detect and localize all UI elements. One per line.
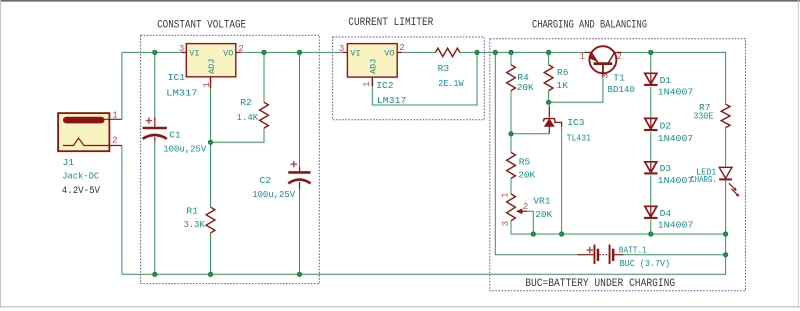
junction node T1 base xyxy=(546,100,551,105)
wire: C2 branch lower xyxy=(299,189,301,275)
svg-text:R3: R3 xyxy=(438,63,450,74)
junction node IC1 ADJ xyxy=(208,140,213,145)
svg-text:3: 3 xyxy=(501,221,511,226)
pin number IC2.2 (VO) xyxy=(399,43,404,53)
LED LED1 CHARG. xyxy=(690,166,739,196)
shunt regulator IC3 TL431 xyxy=(543,105,591,143)
svg-text:D3: D3 xyxy=(660,163,672,174)
svg-text:1: 1 xyxy=(362,81,372,86)
pin number VR1.1 xyxy=(501,192,511,197)
wire: top rail R3 to T1 xyxy=(460,51,585,53)
note BUC=BATTERY UNDER CHARGING xyxy=(525,278,675,290)
wire: R4 bottom to divider node xyxy=(510,91,512,153)
svg-text:2: 2 xyxy=(238,44,243,54)
pin number T1.1 (emitter) xyxy=(580,52,585,62)
svg-text:BD140: BD140 xyxy=(608,84,636,95)
pin number J1.1 xyxy=(112,111,117,121)
svg-text:1N4007: 1N4007 xyxy=(658,87,694,98)
svg-text:R1: R1 xyxy=(186,206,198,217)
wire: R2 branch from top rail xyxy=(263,52,265,102)
svg-text:2E.1W: 2E.1W xyxy=(438,78,464,89)
svg-text:2: 2 xyxy=(617,52,622,62)
wire: diode chain segments xyxy=(650,52,652,234)
wire: J1 pin2 drop to bottom rail xyxy=(121,146,123,275)
junction node C1 ground xyxy=(152,272,157,277)
svg-text:3: 3 xyxy=(179,44,184,54)
wire: IC1 ADJ down through R1 to bottom rail xyxy=(210,88,212,274)
svg-text:VI: VI xyxy=(189,49,199,59)
wire: battery negative to right drop xyxy=(624,254,726,256)
junction node IC2 ADJ feedback xyxy=(474,50,479,55)
svg-text:BATT.1: BATT.1 xyxy=(619,244,647,255)
svg-text:20K: 20K xyxy=(518,170,535,181)
svg-text:20K: 20K xyxy=(517,82,534,93)
svg-text:100u,25V: 100u,25V xyxy=(252,189,295,200)
pin number IC2.3 (VI) xyxy=(339,44,344,54)
svg-text:C1: C1 xyxy=(169,129,181,140)
wire: base node to T1 base xyxy=(549,76,603,103)
junction node VR1 wiper xyxy=(531,231,536,236)
junction node R4-R5 divider xyxy=(508,131,513,136)
pin number T1.3 (base) xyxy=(601,73,611,78)
resistor R6 1K xyxy=(544,65,569,91)
diode D3 1N4007 xyxy=(644,162,693,186)
svg-text:1N4007: 1N4007 xyxy=(658,220,694,231)
svg-text:TL431: TL431 xyxy=(567,133,591,144)
svg-text:VO: VO xyxy=(384,49,394,59)
junction node D1 top xyxy=(648,50,653,55)
dashed box: CONSTANT VOLTAGE section xyxy=(141,20,320,284)
svg-text:VI: VI xyxy=(350,49,360,59)
junction node TL431 ref xyxy=(559,231,564,236)
svg-text:VR1: VR1 xyxy=(533,195,551,206)
junction node battery positive branch xyxy=(493,50,498,55)
svg-text:1: 1 xyxy=(501,192,511,197)
dashed box: CHARGING AND BALANCING section xyxy=(490,20,746,291)
diode D4 1N4007 xyxy=(644,206,693,230)
svg-text:1: 1 xyxy=(112,111,117,121)
svg-text:LM317: LM317 xyxy=(166,88,197,99)
wire: divider node to TL431 anode xyxy=(511,133,549,135)
wire: top rail IC2 VO to R3 xyxy=(402,51,435,53)
wire: R6 bottom to base node xyxy=(548,91,550,103)
svg-text:R2: R2 xyxy=(240,97,252,108)
wire: top rail T1 collector to right corner, down to R7 xyxy=(622,52,726,104)
pin number VR1.3 xyxy=(501,221,511,226)
regulator IC1 LM317 xyxy=(166,44,241,99)
svg-text:IC1: IC1 xyxy=(168,72,186,83)
wire: bottom ground rail xyxy=(122,273,726,275)
svg-text:1: 1 xyxy=(202,82,212,87)
svg-text:BUC (3.7V): BUC (3.7V) xyxy=(620,258,671,269)
regulator IC2 LM317 xyxy=(342,44,406,106)
wire: C1 branch lower xyxy=(154,141,156,275)
svg-text:R5: R5 xyxy=(519,156,531,167)
svg-text:1N4007: 1N4007 xyxy=(658,133,694,144)
resistor R4 20K xyxy=(507,65,534,93)
svg-text:LM317: LM317 xyxy=(377,95,406,106)
resistor R7 330E xyxy=(693,102,730,128)
junction node LED1 bottom xyxy=(723,231,728,236)
wire: C2 branch upper xyxy=(299,52,301,166)
wire: R5 bottom to VR1 top xyxy=(510,178,512,194)
junction node battery negative xyxy=(723,252,728,257)
pin number IC1.3 (VI) xyxy=(179,44,184,54)
svg-text:CONSTANT VOLTAGE: CONSTANT VOLTAGE xyxy=(157,20,246,32)
resistor R3 2E.1W xyxy=(436,48,464,89)
pin number IC1.2 (VO) xyxy=(238,44,243,54)
svg-text:IC2: IC2 xyxy=(376,80,394,91)
junction node D4 bottom xyxy=(648,231,653,236)
svg-text:100u,25V: 100u,25V xyxy=(163,143,206,154)
svg-text:VO: VO xyxy=(223,49,233,59)
svg-text:ADJ: ADJ xyxy=(207,59,217,74)
wire: VR1 bottom to inside rail xyxy=(511,221,726,234)
pin number T1.2 (collector) xyxy=(617,52,622,62)
diode D2 1N4007 xyxy=(644,118,693,144)
svg-text:C2: C2 xyxy=(260,175,272,186)
svg-text:CHARGING AND BALANCING: CHARGING AND BALANCING xyxy=(532,20,647,32)
svg-text:20K: 20K xyxy=(535,209,552,220)
junction node R4 top xyxy=(508,50,513,55)
dashed box: CURRENT LIMITER section xyxy=(333,17,485,120)
svg-text:3: 3 xyxy=(601,73,611,78)
wire: R4 top branch xyxy=(510,52,512,64)
wire: right drop inside rail to bottom rail xyxy=(725,234,727,274)
junction node R6 top xyxy=(546,50,551,55)
svg-text:BUC=BATTERY UNDER CHARGING: BUC=BATTERY UNDER CHARGING xyxy=(525,278,675,290)
wire: IC2 ADJ loop to output node xyxy=(372,52,477,105)
svg-text:4.2V-5V: 4.2V-5V xyxy=(62,186,100,197)
resistor R2 1.4K xyxy=(237,97,269,128)
pin number VR1.2 xyxy=(523,202,528,212)
svg-text:1N4007: 1N4007 xyxy=(658,175,694,186)
junction node R2 top xyxy=(261,50,266,55)
pin number J1.2 xyxy=(112,136,117,146)
junction node C2 ground xyxy=(297,272,302,277)
wire: LED1 cathode to inside rail xyxy=(725,180,727,234)
wire: R6 top branch xyxy=(548,52,550,64)
wire: top rail IC1 VO to IC2 VI xyxy=(241,51,343,53)
svg-text:CURRENT LIMITER: CURRENT LIMITER xyxy=(348,17,433,29)
svg-text:D4: D4 xyxy=(660,208,672,219)
capacitor C2 (polarized 100u,25V) xyxy=(252,161,310,200)
wire: TL431 ref to inside rail xyxy=(554,122,562,234)
svg-text:ADJ: ADJ xyxy=(369,59,379,74)
value label 4.2V-5V xyxy=(62,186,100,197)
wire: VR1 wiper to inside rail xyxy=(527,211,533,234)
pin number IC2.1 (ADJ) xyxy=(362,81,372,86)
resistor R5 20K xyxy=(507,152,536,180)
svg-text:CHARG.: CHARG. xyxy=(690,174,717,185)
wire: R7 to LED1 xyxy=(725,128,727,168)
svg-text:J1: J1 xyxy=(63,157,75,168)
svg-text:R6: R6 xyxy=(557,67,569,78)
svg-text:3.3K: 3.3K xyxy=(184,219,205,230)
svg-text:IC3: IC3 xyxy=(567,117,585,128)
wire: C1 branch upper xyxy=(154,52,156,117)
svg-text:Jack-DC: Jack-DC xyxy=(62,171,99,182)
svg-text:T1: T1 xyxy=(613,73,625,84)
svg-text:2: 2 xyxy=(523,202,528,212)
junction node R1 ground xyxy=(208,272,213,277)
wire: battery positive riser (box3 left) xyxy=(495,52,577,254)
svg-text:1: 1 xyxy=(580,52,585,62)
svg-text:3: 3 xyxy=(339,44,344,54)
wire: R2 bottom to ADJ node xyxy=(211,128,265,142)
connector J1 DC jack xyxy=(58,113,122,182)
capacitor C1 (polarized 100u,25V) xyxy=(143,117,207,154)
svg-text:2: 2 xyxy=(399,43,404,53)
wire: J1 pin1 riser to top rail xyxy=(121,52,123,119)
svg-text:1K: 1K xyxy=(556,80,568,91)
svg-text:330E: 330E xyxy=(693,111,713,122)
pin number IC1.1 (ADJ) xyxy=(202,82,212,87)
battery BATT.1 BUC (3.7V) xyxy=(578,244,671,269)
potentiometer VR1 20K xyxy=(507,194,553,221)
svg-text:D1: D1 xyxy=(660,75,672,86)
diode D1 1N4007 xyxy=(644,73,693,97)
svg-text:2: 2 xyxy=(112,136,117,146)
transistor T1 BD140 (PNP) xyxy=(585,46,636,95)
wire: top rail J1 to IC1 VI xyxy=(122,51,181,53)
junction node C1 top xyxy=(152,50,157,55)
resistor R1 3.3K xyxy=(184,206,215,233)
svg-text:D2: D2 xyxy=(660,120,672,131)
junction node C2 top xyxy=(297,50,302,55)
svg-text:1.4K: 1.4K xyxy=(237,112,259,123)
